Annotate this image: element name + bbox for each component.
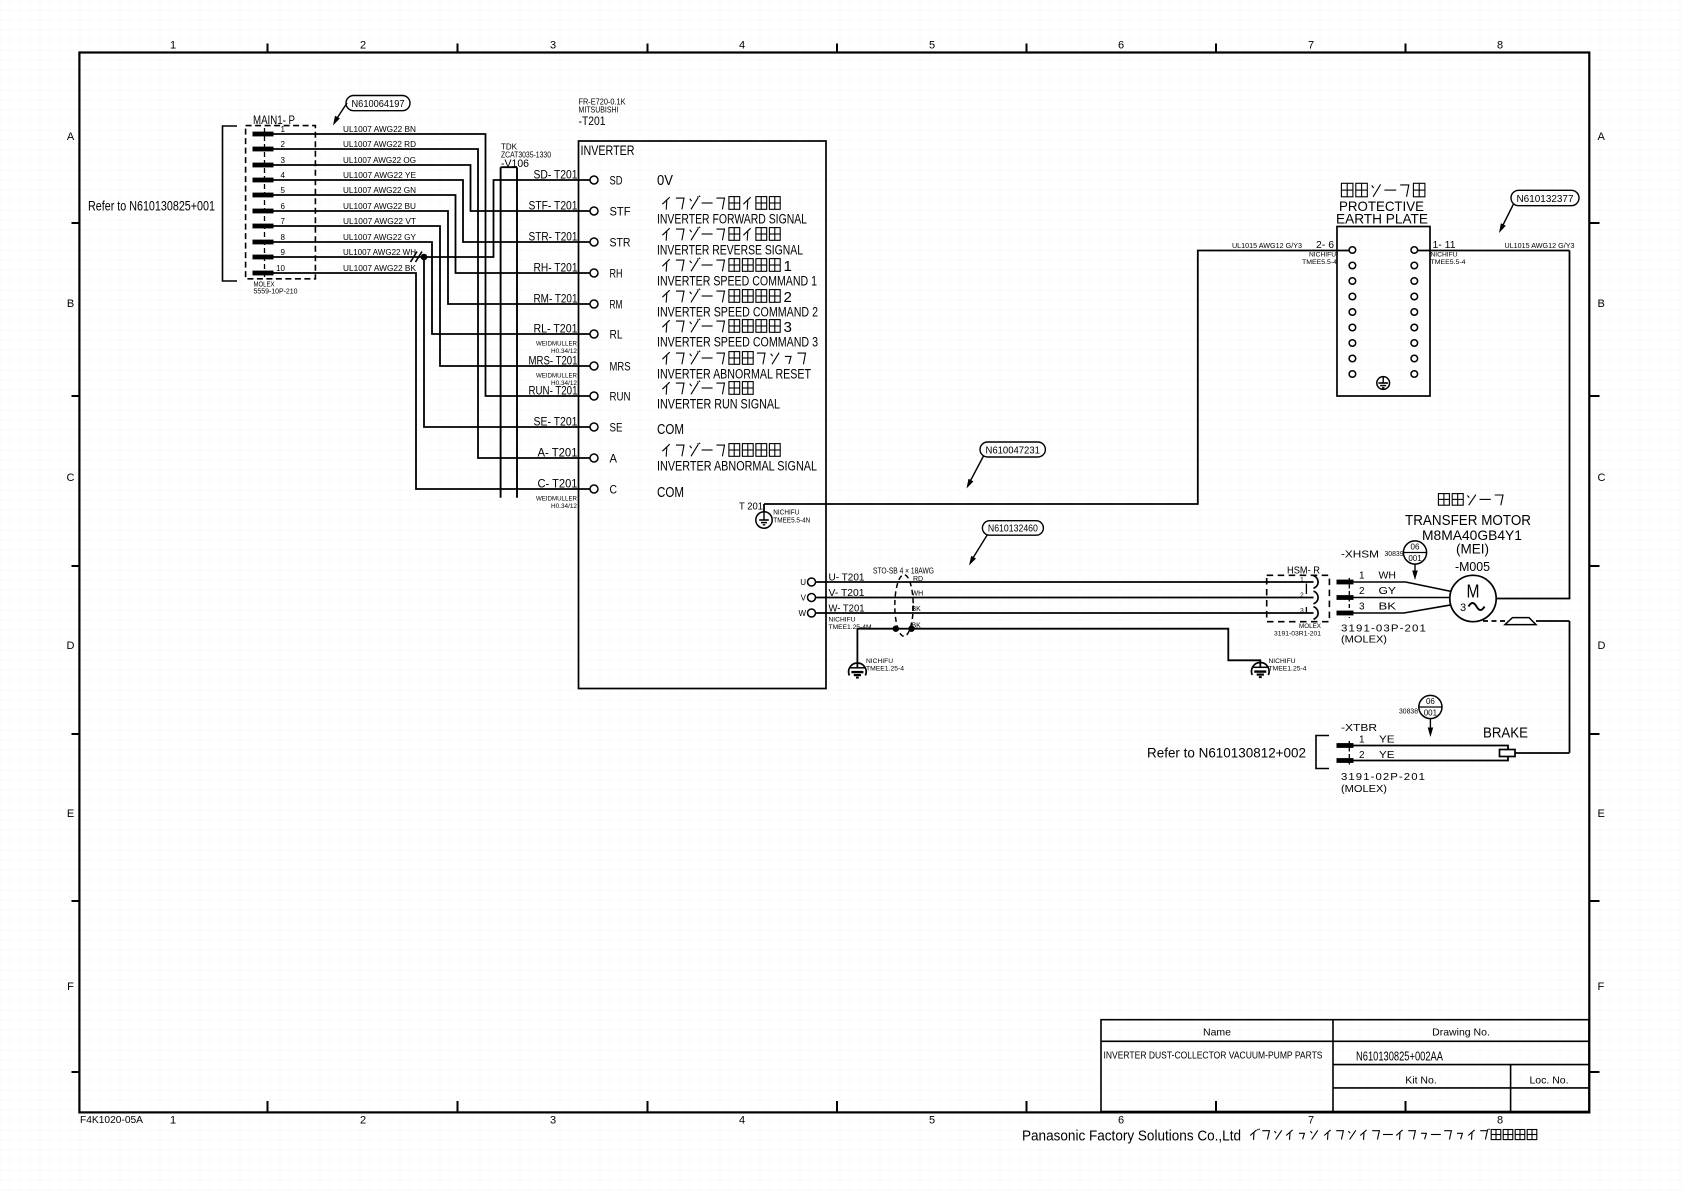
wire U to HSM-R pin 1 bbox=[816, 581, 1314, 583]
wire motor to earth plate 1-11 bbox=[1496, 251, 1569, 599]
svg-text:RUN: RUN bbox=[610, 390, 631, 404]
terminal A of T201 bbox=[590, 454, 598, 462]
wire MAIN1-P pin to inverter STF bbox=[273, 165, 590, 211]
svg-text:UL1015 AWG12 G/Y3: UL1015 AWG12 G/Y3 bbox=[1505, 241, 1575, 250]
label INVERTER SPEED COMMAND 3 bbox=[662, 319, 792, 336]
svg-text:INVERTER RUN SIGNAL: INVERTER RUN SIGNAL bbox=[657, 397, 780, 412]
svg-text:SD: SD bbox=[610, 174, 623, 188]
svg-text:N610064197: N610064197 bbox=[352, 98, 405, 110]
svg-text:RH- T201: RH- T201 bbox=[534, 261, 578, 275]
callout N610047231 bbox=[980, 442, 1045, 457]
svg-text:SD- T201: SD- T201 bbox=[534, 168, 578, 182]
wire V to HSM-R pin 2 bbox=[816, 597, 1314, 599]
wire shield to left ground bbox=[857, 629, 895, 668]
svg-text:RL: RL bbox=[610, 328, 623, 342]
svg-text:M: M bbox=[1467, 581, 1480, 602]
svg-text:UL1007 AWG22 RD: UL1007 AWG22 RD bbox=[343, 140, 416, 149]
svg-text:(MOLEX): (MOLEX) bbox=[1341, 783, 1387, 795]
balloon 06/001 brake bbox=[1419, 695, 1442, 718]
svg-text:NICHIFU: NICHIFU bbox=[866, 658, 893, 665]
svg-text:INVERTER ABNORMAL RESET: INVERTER ABNORMAL RESET bbox=[657, 367, 811, 382]
earth plate right hole 1 bbox=[1411, 247, 1418, 254]
earth plate left hole 6 bbox=[1349, 324, 1356, 331]
svg-text:NICHIFU: NICHIFU bbox=[773, 510, 799, 517]
svg-text:-XTBR: -XTBR bbox=[1341, 722, 1377, 734]
svg-text:INVERTER SPEED COMMAND 3: INVERTER SPEED COMMAND 3 bbox=[657, 335, 818, 350]
svg-text:INVERTER REVERSE SIGNAL: INVERTER REVERSE SIGNAL bbox=[657, 243, 803, 258]
svg-text:B: B bbox=[1598, 298, 1605, 310]
svg-text:N610132460: N610132460 bbox=[988, 524, 1038, 535]
svg-text:A: A bbox=[610, 452, 618, 466]
svg-text:H0.34/12: H0.34/12 bbox=[551, 348, 578, 355]
svg-text:1: 1 bbox=[1359, 571, 1365, 582]
earth plate right hole 8 bbox=[1411, 355, 1418, 362]
earth plate left hole 4 bbox=[1349, 293, 1356, 300]
junction node shield right bbox=[908, 626, 914, 632]
wire MAIN1-P pin 9 WH to SD and SE bbox=[273, 256, 424, 258]
pin 2 MAIN1-P bbox=[253, 147, 273, 151]
callout N610064197 bbox=[346, 96, 410, 111]
svg-text:STO-SB 4 × 18AWG: STO-SB 4 × 18AWG bbox=[873, 566, 934, 576]
bracket MAIN1-P bbox=[223, 126, 238, 281]
svg-text:TMEE1.25-4: TMEE1.25-4 bbox=[1269, 666, 1307, 673]
svg-text:YE: YE bbox=[1379, 750, 1395, 761]
wire XTBR 2 to brake bbox=[1353, 757, 1508, 761]
earth plate right hole 2 bbox=[1411, 262, 1418, 269]
earth plate right hole 3 bbox=[1411, 278, 1418, 285]
svg-text:30839: 30839 bbox=[1385, 551, 1404, 558]
svg-text:TMEE5.5-4: TMEE5.5-4 bbox=[1431, 259, 1466, 266]
svg-text:6: 6 bbox=[1118, 40, 1124, 52]
svg-text:TMEE5.5-4: TMEE5.5-4 bbox=[1302, 259, 1337, 266]
svg-text:UL1007 AWG22 VT: UL1007 AWG22 VT bbox=[343, 217, 416, 226]
svg-text:STF- T201: STF- T201 bbox=[529, 199, 578, 213]
svg-text:F: F bbox=[67, 981, 74, 993]
svg-text:INVERTER SPEED COMMAND 2: INVERTER SPEED COMMAND 2 bbox=[657, 305, 818, 320]
motor M005 transfer motor bbox=[1438, 494, 1503, 506]
svg-text:UL1007 AWG22 YE: UL1007 AWG22 YE bbox=[343, 171, 416, 180]
svg-text:7: 7 bbox=[1308, 40, 1314, 52]
svg-text:COM: COM bbox=[657, 485, 684, 501]
svg-text:5559-10P-210: 5559-10P-210 bbox=[254, 287, 298, 296]
svg-text:3191-03R1-201: 3191-03R1-201 bbox=[1274, 631, 1321, 638]
pin 2 XTBR bbox=[1337, 759, 1353, 763]
twisted-pair marks bbox=[411, 252, 418, 263]
balloon 06/001 motor bbox=[1403, 541, 1426, 564]
svg-text:UL1007 AWG22 GN: UL1007 AWG22 GN bbox=[343, 186, 416, 195]
svg-text:Kit No.: Kit No. bbox=[1405, 1075, 1437, 1087]
svg-text:2: 2 bbox=[1359, 750, 1365, 761]
svg-text:N610047231: N610047231 bbox=[986, 444, 1041, 456]
ground left NICHIFU TMEE1.25-4 bbox=[849, 663, 867, 675]
svg-text:TMEE1.25-4M: TMEE1.25-4M bbox=[829, 624, 872, 631]
svg-text:RD: RD bbox=[913, 576, 923, 583]
svg-text:MOLEX: MOLEX bbox=[1299, 623, 1322, 630]
svg-text:N610130825+002AA: N610130825+002AA bbox=[1356, 1050, 1443, 1064]
svg-text:NICHIFU: NICHIFU bbox=[1431, 252, 1458, 259]
label INVERTER SPEED COMMAND 1 bbox=[662, 258, 792, 275]
svg-text:C: C bbox=[67, 472, 75, 484]
label INVERTER FORWARD SIGNAL bbox=[662, 196, 780, 210]
svg-text:7: 7 bbox=[281, 217, 286, 226]
earth plate right hole 4 bbox=[1411, 293, 1418, 300]
svg-text:A- T201: A- T201 bbox=[538, 446, 578, 460]
wire motor brake link bbox=[1483, 620, 1505, 622]
wire MAIN1-P pin to inverter MRS bbox=[273, 226, 590, 366]
svg-text:B: B bbox=[67, 298, 74, 310]
svg-text:V: V bbox=[801, 594, 807, 603]
svg-text:2: 2 bbox=[1359, 586, 1365, 597]
wire XHSM 3 to motor bbox=[1353, 605, 1452, 613]
label INVERTER SPEED COMMAND 2 bbox=[662, 289, 792, 306]
svg-text:Refer to N610130825+001: Refer to N610130825+001 bbox=[88, 199, 215, 214]
terminal STF of T201 bbox=[590, 207, 598, 215]
svg-text:MRS- T201: MRS- T201 bbox=[529, 354, 578, 368]
callout N610132460 bbox=[982, 521, 1043, 536]
svg-text:A: A bbox=[1598, 131, 1606, 143]
wire shield drain BK bbox=[896, 628, 912, 630]
terminal W of T201 bbox=[808, 609, 816, 617]
svg-text:W- T201: W- T201 bbox=[829, 603, 865, 615]
svg-text:GY: GY bbox=[1379, 586, 1397, 597]
svg-text:-XHSM: -XHSM bbox=[1341, 549, 1379, 561]
pin 10 MAIN1-P bbox=[253, 271, 273, 275]
svg-text:1: 1 bbox=[1300, 576, 1304, 583]
earth plate left hole 1 bbox=[1349, 247, 1356, 254]
svg-text:-T201: -T201 bbox=[579, 116, 606, 128]
svg-text:C: C bbox=[1598, 472, 1606, 484]
svg-text:BK: BK bbox=[1379, 602, 1397, 613]
earth plate right hole 6 bbox=[1411, 324, 1418, 331]
svg-text:06: 06 bbox=[1426, 697, 1435, 706]
svg-text:Loc. No.: Loc. No. bbox=[1529, 1075, 1568, 1087]
earth plate left hole 7 bbox=[1349, 340, 1356, 347]
earth plate right hole 7 bbox=[1411, 340, 1418, 347]
wire earth plate 1-11 to motor bbox=[1418, 250, 1570, 252]
svg-text:INVERTER FORWARD SIGNAL: INVERTER FORWARD SIGNAL bbox=[657, 212, 807, 227]
svg-text:4: 4 bbox=[739, 1115, 745, 1127]
svg-text:INVERTER: INVERTER bbox=[581, 143, 635, 158]
pin 4 MAIN1-P bbox=[253, 178, 273, 182]
wire shield to right ground bbox=[912, 629, 1261, 667]
wire XTBR 1 to brake bbox=[1353, 746, 1508, 750]
pin 1 MAIN1-P bbox=[253, 132, 273, 136]
svg-text:STR- T201: STR- T201 bbox=[529, 230, 578, 244]
earth plate left hole 2 bbox=[1349, 262, 1356, 269]
bracket XTBR bbox=[1316, 736, 1329, 769]
pin 8 MAIN1-P bbox=[253, 240, 273, 244]
svg-text:NICHIFU: NICHIFU bbox=[1309, 252, 1336, 259]
pin 1 XTBR bbox=[1337, 744, 1353, 748]
svg-text:SE- T201: SE- T201 bbox=[534, 415, 578, 429]
svg-text:8: 8 bbox=[281, 233, 286, 242]
svg-text:WH: WH bbox=[1379, 571, 1397, 582]
svg-text:BRAKE: BRAKE bbox=[1483, 725, 1528, 742]
svg-text:10: 10 bbox=[276, 264, 285, 273]
svg-text:STR: STR bbox=[610, 236, 631, 250]
svg-text:5: 5 bbox=[929, 1115, 935, 1127]
svg-text:001: 001 bbox=[1408, 554, 1422, 563]
label INVERTER ABNORMAL SIGNAL bbox=[662, 443, 780, 457]
wire MAIN1-P pin to inverter STR bbox=[273, 180, 590, 242]
svg-text:EARTH PLATE: EARTH PLATE bbox=[1336, 211, 1428, 227]
svg-text:3: 3 bbox=[550, 1115, 556, 1127]
protective earth plate bbox=[1341, 183, 1425, 197]
svg-text:H0.34/12: H0.34/12 bbox=[551, 503, 578, 510]
earth plate left hole 5 bbox=[1349, 309, 1356, 316]
svg-text:001: 001 bbox=[1424, 708, 1438, 717]
svg-text:T 201: T 201 bbox=[739, 502, 763, 513]
svg-text:COM: COM bbox=[657, 422, 684, 438]
svg-text:RH: RH bbox=[610, 267, 623, 281]
svg-text:1: 1 bbox=[281, 125, 286, 134]
svg-text:1: 1 bbox=[1359, 735, 1365, 746]
svg-text:UL1007 AWG22 GY: UL1007 AWG22 GY bbox=[343, 233, 417, 242]
svg-text:Name: Name bbox=[1203, 1027, 1231, 1039]
wire brake link vertical bbox=[1569, 621, 1571, 753]
svg-text:2: 2 bbox=[281, 140, 286, 149]
wire MAIN1-P pin to inverter A bbox=[273, 149, 590, 458]
svg-text:(MOLEX): (MOLEX) bbox=[1341, 634, 1387, 646]
svg-text:TMEE5.5-4N: TMEE5.5-4N bbox=[773, 518, 810, 525]
pin 1 XHSM bbox=[1337, 580, 1353, 584]
terminal RUN of T201 bbox=[590, 392, 598, 400]
svg-text:RM: RM bbox=[610, 298, 623, 312]
svg-text:3: 3 bbox=[1359, 602, 1365, 613]
svg-text:INVERTER SPEED COMMAND 1: INVERTER SPEED COMMAND 1 bbox=[657, 274, 817, 289]
svg-text:3: 3 bbox=[1300, 607, 1304, 614]
svg-text:C- T201: C- T201 bbox=[538, 477, 578, 491]
wire XHSM 1 to motor bbox=[1353, 582, 1452, 592]
svg-text:5: 5 bbox=[281, 186, 286, 195]
svg-text:NICHIFU: NICHIFU bbox=[829, 617, 856, 624]
svg-text:8: 8 bbox=[1497, 1115, 1503, 1127]
svg-text:4: 4 bbox=[281, 171, 286, 180]
svg-text:UL1007 AWG22 BK: UL1007 AWG22 BK bbox=[343, 264, 417, 273]
svg-text:MITSUBISHI: MITSUBISHI bbox=[579, 106, 619, 115]
svg-text:1- 11: 1- 11 bbox=[1433, 239, 1456, 251]
svg-text:2: 2 bbox=[360, 1115, 366, 1127]
svg-text:2: 2 bbox=[360, 40, 366, 52]
svg-text:Panasonic Factory Solutions Co: Panasonic Factory Solutions Co.,Ltd bbox=[1022, 1129, 1241, 1145]
pin 9 MAIN1-P bbox=[253, 255, 273, 259]
svg-text:YE: YE bbox=[1379, 735, 1395, 746]
junction node shield left bbox=[893, 626, 899, 632]
svg-text:1: 1 bbox=[170, 1115, 176, 1127]
svg-text:30838: 30838 bbox=[1399, 709, 1418, 716]
label INVERTER REVERSE SIGNAL bbox=[662, 227, 780, 241]
svg-text:TMEE1.25-4: TMEE1.25-4 bbox=[866, 666, 904, 673]
svg-text:0V: 0V bbox=[657, 173, 673, 189]
ground earth plate PE symbol bbox=[1377, 377, 1390, 390]
earth plate left hole 3 bbox=[1349, 278, 1356, 285]
svg-text:2: 2 bbox=[1300, 592, 1304, 599]
wire MAIN1-P pin to inverter RH bbox=[273, 195, 590, 273]
ground T201 PE symbol bbox=[763, 504, 765, 516]
svg-text:UL1007 AWG22 BN: UL1007 AWG22 BN bbox=[343, 125, 416, 134]
svg-text:D: D bbox=[1598, 640, 1606, 652]
label INVERTER RUN SIGNAL bbox=[662, 381, 753, 395]
svg-text:RM- T201: RM- T201 bbox=[534, 292, 578, 306]
wire MAIN1-P pin to inverter RUN bbox=[273, 134, 590, 396]
wire brake to link bbox=[1515, 752, 1570, 754]
junction node on WH wire bbox=[421, 254, 428, 261]
svg-text:N610132377: N610132377 bbox=[1517, 193, 1574, 205]
svg-text:C: C bbox=[610, 483, 618, 497]
pin 3 XHSM bbox=[1337, 611, 1353, 615]
title block bbox=[1101, 1020, 1589, 1112]
svg-text:U- T201: U- T201 bbox=[829, 572, 865, 584]
svg-text:RL- T201: RL- T201 bbox=[534, 322, 578, 336]
svg-text:MRS: MRS bbox=[610, 360, 631, 374]
svg-text:3191-02P-201: 3191-02P-201 bbox=[1341, 771, 1426, 783]
terminal C of T201 bbox=[590, 485, 598, 493]
svg-text:7: 7 bbox=[1308, 1115, 1314, 1127]
svg-text:Refer to N610130812+002: Refer to N610130812+002 bbox=[1147, 746, 1306, 761]
earth plate left hole 8 bbox=[1349, 355, 1356, 362]
svg-text:9: 9 bbox=[281, 248, 286, 257]
callout N610132377 bbox=[1511, 190, 1579, 205]
svg-text:V- T201: V- T201 bbox=[829, 587, 865, 599]
earth plate right hole 9 bbox=[1411, 371, 1418, 378]
ground right NICHIFU TMEE1.25-4 bbox=[1252, 663, 1270, 675]
svg-text:U: U bbox=[800, 578, 806, 587]
svg-text:3: 3 bbox=[784, 319, 792, 336]
svg-text:2- 6: 2- 6 bbox=[1316, 239, 1334, 251]
terminal SE of T201 bbox=[590, 423, 598, 431]
svg-text:NICHIFU: NICHIFU bbox=[1269, 658, 1296, 665]
svg-text:WH: WH bbox=[912, 591, 924, 598]
svg-text:3: 3 bbox=[281, 156, 286, 165]
svg-text:6: 6 bbox=[1118, 1115, 1124, 1127]
pin 7 MAIN1-P bbox=[253, 224, 273, 228]
svg-text:UL1007 AWG22 OG: UL1007 AWG22 OG bbox=[343, 156, 416, 165]
svg-text:UL1007 AWG22 WH: UL1007 AWG22 WH bbox=[343, 248, 416, 257]
svg-text:1: 1 bbox=[784, 258, 792, 275]
svg-text:E: E bbox=[1598, 808, 1605, 820]
svg-text:INVERTER DUST-COLLECTOR VACUUM: INVERTER DUST-COLLECTOR VACUUM-PUMP PART… bbox=[1104, 1051, 1323, 1062]
wire MAIN1-P pin to inverter RL bbox=[273, 242, 590, 334]
svg-text:INVERTER ABNORMAL SIGNAL: INVERTER ABNORMAL SIGNAL bbox=[657, 459, 817, 474]
terminal U of T201 bbox=[808, 578, 816, 586]
svg-text:-M005: -M005 bbox=[1455, 560, 1490, 574]
pin 5 MAIN1-P bbox=[253, 193, 273, 197]
svg-text:SE: SE bbox=[610, 421, 623, 435]
svg-text:WEIDMULLER: WEIDMULLER bbox=[536, 341, 577, 348]
svg-text:8: 8 bbox=[1497, 40, 1503, 52]
svg-text:H0.34/12: H0.34/12 bbox=[551, 380, 578, 387]
svg-text:W: W bbox=[798, 609, 806, 618]
svg-text:BK: BK bbox=[912, 606, 922, 613]
terminal RM of T201 bbox=[590, 300, 598, 308]
svg-text:D: D bbox=[67, 640, 75, 652]
terminal MRS of T201 bbox=[590, 362, 598, 370]
svg-text:3: 3 bbox=[550, 40, 556, 52]
svg-text:UL1015 AWG12 G/Y3: UL1015 AWG12 G/Y3 bbox=[1232, 241, 1302, 250]
svg-text:STF: STF bbox=[610, 205, 631, 219]
svg-text:WEIDMULLER: WEIDMULLER bbox=[536, 373, 577, 380]
svg-text:1: 1 bbox=[170, 40, 176, 52]
terminal V of T201 bbox=[808, 594, 816, 602]
terminal STR of T201 bbox=[590, 238, 598, 246]
wire MAIN1-P pin to inverter C bbox=[273, 273, 590, 489]
wire XHSM 2 to motor bbox=[1353, 597, 1450, 599]
svg-text:E: E bbox=[67, 808, 74, 820]
terminal RL of T201 bbox=[590, 330, 598, 338]
svg-text:(MEI): (MEI) bbox=[1456, 542, 1489, 557]
cable marker trapezoid bbox=[1505, 618, 1536, 625]
svg-text:6: 6 bbox=[281, 202, 286, 211]
svg-text:UL1007 AWG22 BU: UL1007 AWG22 BU bbox=[343, 202, 416, 211]
pin 2 XHSM bbox=[1337, 596, 1353, 600]
wire W to HSM-R pin 3 bbox=[816, 612, 1314, 614]
pin 6 MAIN1-P bbox=[253, 209, 273, 213]
label INVERTER ABNORMAL RESET bbox=[662, 351, 805, 365]
earth plate left hole 9 bbox=[1349, 371, 1356, 378]
svg-text:4: 4 bbox=[739, 40, 745, 52]
earth plate right hole 5 bbox=[1411, 309, 1418, 316]
wire MAIN1-P pin to inverter RM bbox=[273, 211, 590, 304]
svg-text:F4K1020-05A: F4K1020-05A bbox=[80, 1115, 143, 1126]
svg-text:A: A bbox=[67, 131, 75, 143]
terminal SD of T201 bbox=[590, 176, 598, 184]
svg-text:3: 3 bbox=[1460, 602, 1466, 614]
svg-text:06: 06 bbox=[1411, 543, 1420, 552]
svg-text:Drawing No.: Drawing No. bbox=[1432, 1027, 1490, 1039]
svg-text:WEIDMULLER: WEIDMULLER bbox=[536, 496, 577, 503]
svg-text:5: 5 bbox=[929, 40, 935, 52]
svg-text:-V106: -V106 bbox=[501, 158, 529, 170]
svg-text:2: 2 bbox=[784, 289, 792, 306]
svg-text:F: F bbox=[1598, 981, 1605, 993]
terminal RH of T201 bbox=[590, 269, 598, 277]
wire T201 earth to protective earth plate bbox=[764, 251, 1349, 505]
pin 3 MAIN1-P bbox=[253, 163, 273, 167]
